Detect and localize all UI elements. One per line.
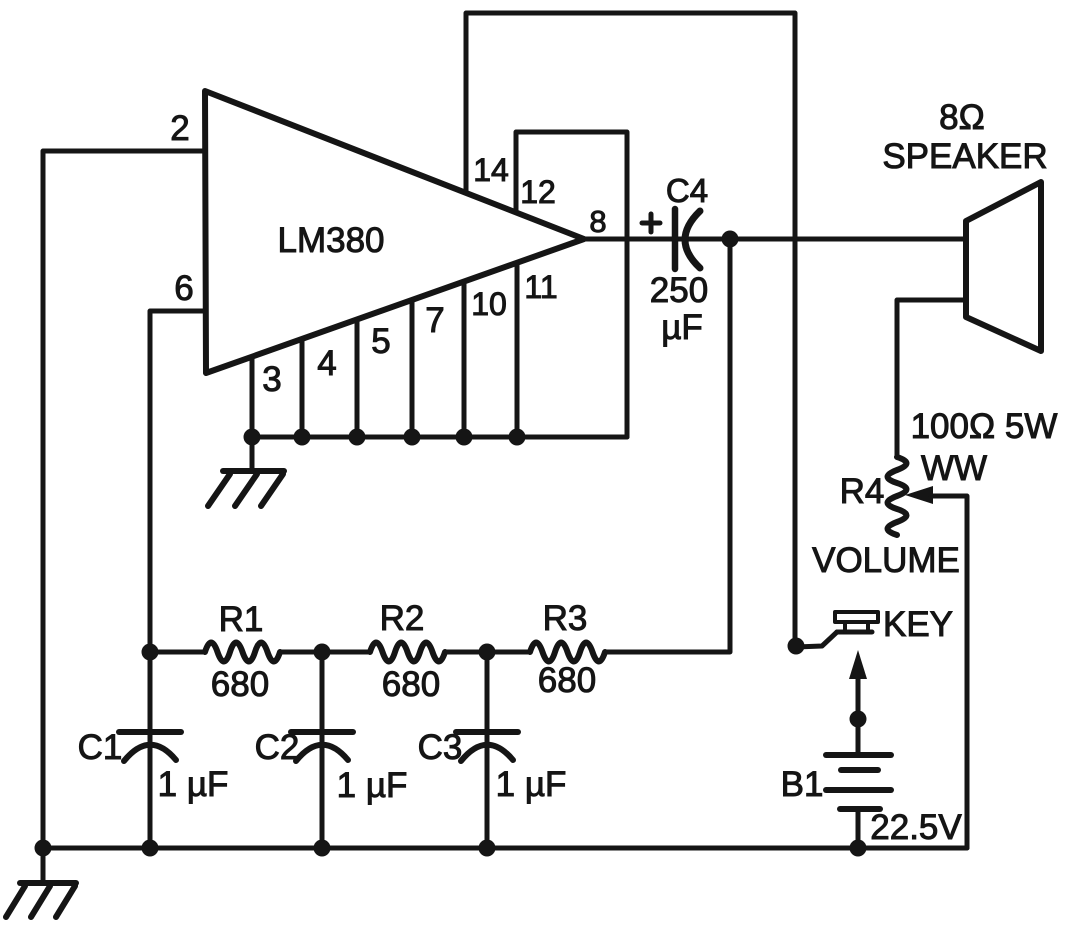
key contact arrow [849,650,867,679]
svg-text:KEY: KEY [883,605,953,644]
svg-text:SPEAKER: SPEAKER [882,137,1047,176]
resistor R1 [205,643,280,662]
node output junction [722,231,739,248]
capacitor C3 lead [485,652,490,848]
svg-text:1 µF: 1 µF [158,765,229,804]
node on arrow shaft [850,711,867,728]
wire ladder left segment [150,650,205,655]
battery B1 plate short bottom [840,806,880,812]
key switch base bar [837,630,872,635]
wire battery to bottom rail [856,809,861,848]
capacitor C1 lead [148,652,153,848]
node key left [788,638,805,655]
svg-text:22.5V: 22.5V [870,808,962,847]
svg-text:VOLUME: VOLUME [812,541,960,580]
wire pin12 loop to bus [516,132,627,437]
wire pin11 vertical [515,263,520,437]
R4 wiper arrow [905,486,933,504]
wire pin10 vertical [462,282,467,437]
svg-text:2: 2 [170,109,189,148]
svg-text:3: 3 [262,360,281,399]
svg-text:B1: B1 [781,765,824,804]
ground bottom left [41,848,46,883]
svg-text:C1: C1 [78,728,123,767]
node dots on ground bus [244,429,261,446]
svg-text:680: 680 [538,661,596,700]
wire pin6 down to RC ladder [150,311,205,652]
key switch lever [796,632,837,647]
svg-text:C4: C4 [666,172,708,209]
capacitor C4 plates [672,209,679,269]
node dots on bottom rail [35,840,52,857]
svg-text:8Ω: 8Ω [939,98,985,137]
key switch stem [843,622,847,632]
svg-text:680: 680 [382,665,440,704]
wire pin14 to top rail and down right side to key [466,13,795,646]
svg-text:1 µF: 1 µF [337,766,408,805]
plus sign of C4 [642,221,660,226]
capacitor C2 plates [291,729,353,735]
capacitor C2 lead [320,652,325,848]
wire speaker lower terminal to R4 [897,300,966,457]
svg-text:7: 7 [425,301,444,340]
op-amp U1 LM380 triangle [205,91,584,373]
resistor R2 [370,643,445,662]
svg-text:11: 11 [524,269,557,305]
svg-text:R1: R1 [219,600,264,639]
resistor R3 [530,643,605,662]
ground under pin bus [250,437,255,471]
svg-text:WW: WW [921,449,987,488]
key switch knob [835,612,878,622]
capacitor C1 plates [119,729,181,735]
svg-text:C2: C2 [255,728,300,767]
wire pin2 to left rail down to bottom rail [43,151,205,848]
svg-text:R3: R3 [543,599,588,638]
wire wiper to right rail down to bottom rail [931,496,967,848]
wire pin5 vertical [355,320,360,437]
wire R2 to R3 [445,650,530,655]
battery B1 plate long top [826,752,891,758]
wire bottom rail [43,846,967,851]
potentiometer R4 [888,457,907,535]
svg-text:6: 6 [174,269,193,308]
wire ground bus under pins [252,435,627,440]
svg-text:14: 14 [473,152,509,188]
battery B1 plate short [841,767,878,773]
svg-text:680: 680 [211,665,269,704]
wire pin3 vertical [250,357,255,437]
capacitor C3 plates [456,729,518,735]
svg-text:4: 4 [317,344,336,383]
battery B1 plate long [826,787,891,793]
svg-text:5: 5 [371,322,390,361]
node dots on ladder [142,644,159,661]
svg-text:10: 10 [471,286,507,322]
svg-text:R2: R2 [380,599,425,638]
svg-text:C3: C3 [418,728,463,767]
svg-text:LM380: LM380 [277,221,384,260]
wire R1 to R2 [280,650,370,655]
wire pin4 vertical [300,339,305,437]
wire pin7 vertical [410,300,415,437]
svg-text:100Ω 5W: 100Ω 5W [911,407,1058,446]
svg-text:8: 8 [589,204,606,239]
wire output pin8 to speaker [584,237,966,242]
svg-text:R4: R4 [840,472,885,511]
speaker cone [966,182,1041,351]
svg-text:1 µF: 1 µF [496,765,567,804]
wire feedback from output node down to R3 [605,239,730,652]
svg-text:12: 12 [520,174,556,210]
svg-text:250: 250 [650,271,708,310]
svg-text:µF: µF [661,308,703,347]
